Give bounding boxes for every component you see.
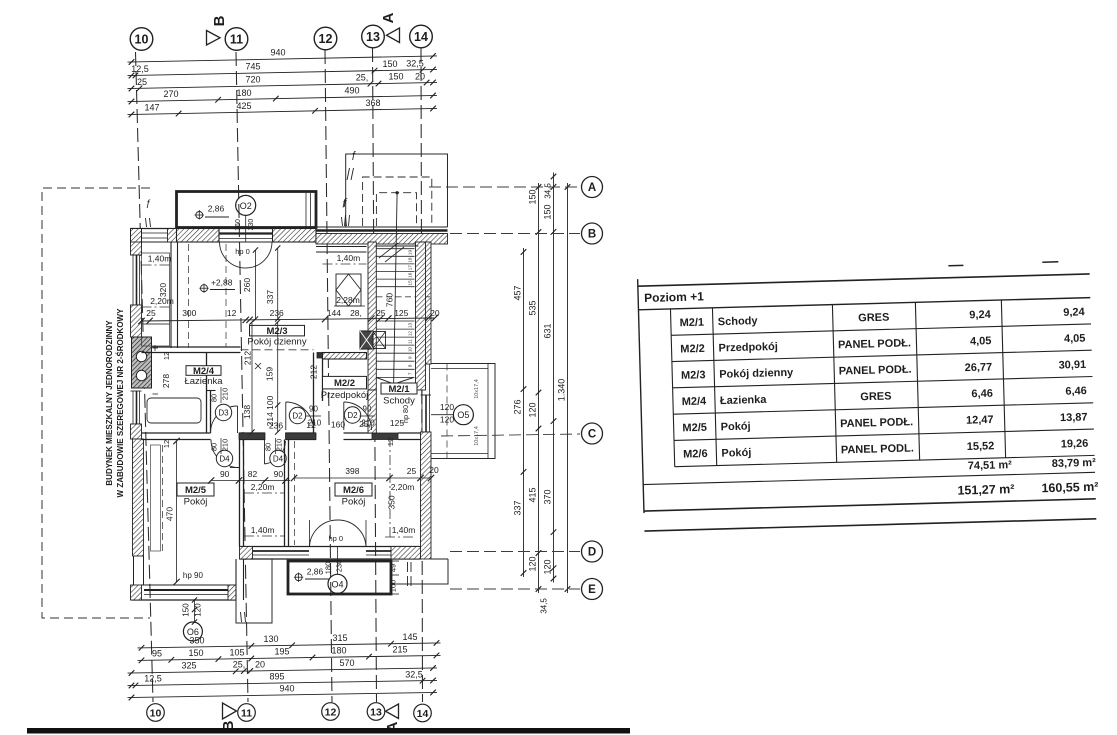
axis bubble E bbox=[582, 579, 603, 600]
wall pier left of window O2 bbox=[177, 229, 220, 243]
svg-text:9,24: 9,24 bbox=[1063, 306, 1086, 319]
svg-text:19,26: 19,26 bbox=[1061, 438, 1089, 451]
svg-text:PANEL PODŁ.: PANEL PODŁ. bbox=[840, 416, 913, 430]
stair break dashed line bbox=[377, 296, 431, 298]
svg-text:180: 180 bbox=[236, 88, 251, 98]
french door bottom arcs hp 0 bbox=[310, 520, 338, 547]
stair treads upper flight bbox=[377, 248, 415, 250]
grid bubble 10 bottom bbox=[147, 704, 165, 722]
svg-text:4,05: 4,05 bbox=[970, 335, 992, 348]
svg-text:120: 120 bbox=[440, 415, 454, 425]
svg-text:212: 212 bbox=[309, 365, 319, 379]
svg-text:M2/2: M2/2 bbox=[334, 378, 355, 389]
svg-text:80: 80 bbox=[210, 394, 219, 402]
svg-text:415: 415 bbox=[528, 487, 538, 502]
porch protrusion below M2/5 bbox=[235, 559, 237, 600]
door D4 right bubble bbox=[270, 450, 286, 466]
svg-text:B: B bbox=[588, 229, 596, 241]
axis bubble B bbox=[582, 223, 603, 244]
svg-text:20: 20 bbox=[430, 308, 440, 318]
svg-text:O6: O6 bbox=[187, 627, 199, 637]
dormer inner dashed rectangle bbox=[376, 193, 416, 226]
svg-text:25,: 25, bbox=[359, 419, 371, 429]
M2/2 top wall bbox=[323, 353, 367, 360]
window bubble O6 bbox=[183, 622, 202, 641]
axis C leader bbox=[441, 434, 580, 436]
svg-text:PANEL PODL.: PANEL PODL. bbox=[841, 442, 914, 456]
svg-text:M2/5: M2/5 bbox=[682, 422, 707, 435]
svg-text:BUDYNEK MIESZKALNY JEDNORODZIN: BUDYNEK MIESZKALNY JEDNORODZINNY bbox=[105, 320, 114, 486]
section marker A bottom bbox=[386, 704, 399, 719]
level mark +2,88 bbox=[201, 285, 208, 292]
svg-text:160: 160 bbox=[331, 420, 345, 430]
svg-text:O5: O5 bbox=[457, 410, 469, 420]
door D2 left bubble bbox=[289, 407, 305, 423]
svg-text:130: 130 bbox=[263, 634, 278, 644]
svg-text:1.340: 1.340 bbox=[557, 379, 567, 402]
room M2/1 Schody bbox=[381, 383, 417, 394]
axis B leader bbox=[433, 233, 580, 235]
height line 1,40m M2/6 bbox=[385, 536, 415, 538]
svg-text:A: A bbox=[588, 182, 596, 194]
grid bubble 12 top bbox=[314, 27, 337, 50]
svg-text:150: 150 bbox=[181, 603, 190, 617]
svg-text:18: 18 bbox=[408, 257, 413, 263]
svg-text:180: 180 bbox=[331, 646, 346, 656]
svg-text:2,86: 2,86 bbox=[307, 567, 324, 577]
svg-text:A: A bbox=[380, 12, 397, 23]
svg-text:398: 398 bbox=[345, 466, 359, 476]
svg-text:7: 7 bbox=[408, 372, 413, 375]
svg-text:150: 150 bbox=[382, 59, 397, 69]
grid bubble 10 top bbox=[130, 28, 153, 51]
grid line 10 bbox=[136, 52, 154, 702]
svg-text:12: 12 bbox=[306, 420, 316, 430]
property boundary dashed bbox=[42, 188, 150, 618]
balcony top slab bbox=[177, 192, 317, 228]
svg-text:GRES: GRES bbox=[860, 390, 892, 403]
svg-text:25: 25 bbox=[407, 466, 417, 476]
scan specks above table bbox=[948, 264, 963, 266]
svg-text:M2/3: M2/3 bbox=[266, 326, 287, 337]
svg-text:25,: 25, bbox=[356, 72, 369, 82]
svg-text:159: 159 bbox=[264, 367, 274, 381]
svg-text:19: 19 bbox=[408, 250, 413, 256]
svg-text:12: 12 bbox=[386, 438, 395, 446]
svg-text:Przedpokój: Przedpokój bbox=[718, 341, 778, 355]
svg-text:D3: D3 bbox=[218, 409, 229, 418]
svg-text:236: 236 bbox=[270, 308, 284, 318]
wall pier right of window O2 bbox=[273, 229, 317, 243]
svg-text:17: 17 bbox=[408, 265, 413, 271]
reference dashed line bbox=[188, 244, 190, 348]
stair landing edge lines bbox=[316, 246, 367, 248]
top parapet left of balcony bbox=[142, 232, 177, 234]
svg-text:10x17,4: 10x17,4 bbox=[474, 379, 480, 399]
balcony bottom slab bbox=[288, 561, 391, 594]
svg-text:320: 320 bbox=[158, 283, 168, 297]
svg-text:Pokój: Pokój bbox=[184, 497, 208, 508]
balcony bearing hatch left bbox=[168, 229, 177, 243]
svg-text:32,5: 32,5 bbox=[406, 58, 424, 68]
table row M2/4 bbox=[673, 403, 1093, 414]
room M2/3 Pokoj dzienny bbox=[250, 325, 305, 336]
svg-text:10: 10 bbox=[135, 33, 149, 47]
svg-text:32,5: 32,5 bbox=[405, 669, 423, 679]
svg-text:90: 90 bbox=[309, 405, 318, 414]
svg-text:180: 180 bbox=[323, 562, 332, 575]
left wall lower stub bbox=[133, 556, 135, 600]
svg-text:570: 570 bbox=[339, 658, 354, 668]
door D4 left bubble bbox=[216, 450, 232, 466]
svg-text:12: 12 bbox=[162, 352, 171, 360]
chimney vent box with cross bbox=[373, 332, 386, 349]
svg-text:M2/3: M2/3 bbox=[681, 369, 706, 382]
svg-text:236: 236 bbox=[269, 421, 283, 431]
left wall window (bathroom) bbox=[132, 391, 134, 424]
height line 2,20m M2/6 bbox=[389, 437, 391, 540]
svg-text:D4: D4 bbox=[219, 455, 230, 464]
svg-text:ƒ: ƒ bbox=[351, 150, 357, 161]
svg-text:10x17,4: 10x17,4 bbox=[474, 426, 480, 446]
svg-text:Schody: Schody bbox=[383, 395, 415, 406]
svg-text:14: 14 bbox=[414, 30, 428, 44]
room M2/4 Lazienka bbox=[186, 366, 221, 376]
svg-text:hp 90: hp 90 bbox=[183, 571, 204, 580]
svg-text:90: 90 bbox=[220, 469, 230, 479]
svg-text:150: 150 bbox=[388, 72, 403, 82]
svg-text:Łazienka: Łazienka bbox=[720, 394, 768, 407]
grid bubble 14 top bbox=[410, 25, 433, 48]
svg-text:M2/1: M2/1 bbox=[388, 384, 410, 395]
svg-text:9,24: 9,24 bbox=[969, 309, 992, 322]
svg-text:1,40m: 1,40m bbox=[148, 254, 172, 264]
svg-text:90: 90 bbox=[274, 469, 284, 479]
svg-text:Łazienka: Łazienka bbox=[184, 376, 223, 387]
svg-text:M2/1: M2/1 bbox=[679, 317, 704, 330]
grid bubble 11 top bbox=[225, 28, 248, 51]
svg-text:6,46: 6,46 bbox=[1065, 385, 1087, 398]
right dim chain 457 276 337 bbox=[523, 248, 525, 577]
grid bubble 14 bottom bbox=[414, 704, 432, 722]
svg-text:W ZABUDOWIE SZEREGOWEJ NR 2-ŚR: W ZABUDOWIE SZEREGOWEJ NR 2-ŚRODKOWY bbox=[116, 308, 125, 498]
svg-text:ƒ: ƒ bbox=[343, 197, 349, 208]
dormer dashed rectangle bbox=[363, 177, 432, 226]
svg-text:12,47: 12,47 bbox=[966, 414, 994, 427]
svg-text:15,52: 15,52 bbox=[967, 440, 995, 453]
svg-text:B: B bbox=[211, 15, 228, 26]
scan artifact black bar bbox=[27, 728, 630, 734]
ceiling break dashed line M2/3 bbox=[241, 349, 314, 351]
svg-text:215: 215 bbox=[392, 645, 407, 655]
stair arrow bbox=[377, 378, 414, 385]
M2/2 corner joint bbox=[317, 353, 323, 359]
height line 2,20m corridor bbox=[244, 492, 285, 494]
level mark 2,86 bottom bbox=[295, 574, 302, 581]
svg-text:278: 278 bbox=[161, 374, 171, 388]
kitchen counter bbox=[142, 253, 170, 324]
door D4 right arc bbox=[265, 441, 286, 464]
svg-text:490: 490 bbox=[344, 86, 359, 96]
svg-text:9: 9 bbox=[408, 356, 413, 359]
svg-text:151,27 m²: 151,27 m² bbox=[957, 482, 1014, 498]
svg-text:49: 49 bbox=[389, 564, 398, 572]
svg-text:34,5: 34,5 bbox=[544, 183, 553, 199]
svg-text:100: 100 bbox=[389, 580, 398, 593]
svg-text:4,05: 4,05 bbox=[1064, 333, 1086, 346]
svg-text:11: 11 bbox=[408, 339, 413, 344]
svg-text:425: 425 bbox=[236, 101, 251, 111]
svg-text:Przedpokój: Przedpokój bbox=[321, 390, 369, 401]
svg-text:28,: 28, bbox=[350, 308, 362, 318]
svg-text:PANEL PODŁ.: PANEL PODŁ. bbox=[838, 337, 911, 351]
svg-text:83,79 m²: 83,79 m² bbox=[1052, 457, 1097, 470]
svg-text:120: 120 bbox=[528, 556, 538, 571]
balcony inner verticals bbox=[305, 193, 307, 227]
svg-text:Pokój: Pokój bbox=[342, 497, 366, 508]
stair left wall bbox=[368, 242, 376, 390]
svg-text:2,86: 2,86 bbox=[208, 204, 225, 214]
svg-text:160: 160 bbox=[235, 219, 242, 231]
svg-text:1,40m: 1,40m bbox=[337, 253, 361, 263]
left exterior wall bbox=[131, 242, 142, 255]
section marker B top bbox=[207, 31, 221, 46]
wall M2/6 left bbox=[284, 440, 286, 547]
interior dim chain 25 300 12 236 144 28 25 125 20 bbox=[142, 318, 435, 321]
window O2 opening bbox=[219, 232, 273, 234]
svg-text:Poziom +1: Poziom +1 bbox=[644, 289, 704, 305]
svg-text:120: 120 bbox=[440, 402, 454, 412]
svg-text:11: 11 bbox=[241, 707, 252, 719]
furniture mark M2/3 bbox=[255, 363, 261, 369]
door D2 right bubble bbox=[344, 407, 360, 423]
section marker A top bbox=[387, 28, 400, 43]
svg-text:PANEL PODŁ.: PANEL PODŁ. bbox=[839, 364, 912, 378]
svg-text:105: 105 bbox=[229, 647, 244, 657]
svg-text:12,5: 12,5 bbox=[131, 64, 149, 74]
svg-text:631: 631 bbox=[543, 323, 553, 338]
svg-text:14: 14 bbox=[417, 708, 429, 720]
svg-text:535: 535 bbox=[528, 300, 538, 315]
top dimensions 25 720 25 150 20 bbox=[128, 82, 438, 88]
right dim chain 150 535 120 415 120 bbox=[538, 183, 540, 593]
left wall pier bbox=[131, 305, 142, 337]
wall M2/5 right bbox=[239, 440, 241, 547]
svg-text:M2/5: M2/5 bbox=[185, 485, 207, 496]
svg-text:25: 25 bbox=[376, 308, 386, 318]
svg-text:720: 720 bbox=[245, 75, 260, 85]
svg-text:12: 12 bbox=[162, 440, 171, 448]
M2/6 inner face dashed bbox=[294, 441, 296, 545]
bottom dimensions 325 25 20 570 bbox=[128, 668, 438, 673]
svg-text:E: E bbox=[588, 584, 596, 596]
bathtub bbox=[147, 398, 201, 423]
svg-text:300: 300 bbox=[182, 308, 196, 318]
stair treads lower flight bbox=[377, 320, 415, 322]
svg-text:6,46: 6,46 bbox=[971, 388, 993, 401]
table column lines bbox=[670, 309, 674, 467]
bay window outline bbox=[431, 364, 495, 459]
svg-text:13: 13 bbox=[370, 706, 382, 718]
svg-text:34,5: 34,5 bbox=[540, 598, 549, 614]
bay centre dashed bbox=[446, 364, 448, 460]
svg-text:150: 150 bbox=[188, 648, 203, 658]
svg-text:Pokój: Pokój bbox=[721, 421, 751, 434]
door D3 (bathroom) arc bbox=[211, 406, 238, 433]
right exterior wall upper bbox=[421, 242, 432, 364]
svg-text:120: 120 bbox=[543, 559, 553, 574]
svg-text:150: 150 bbox=[528, 189, 538, 204]
svg-text:hp 0: hp 0 bbox=[235, 247, 250, 256]
top dimensions 270 180 490 bbox=[128, 95, 438, 101]
middle wall axis C with door openings bbox=[142, 432, 211, 434]
svg-text:12: 12 bbox=[408, 331, 413, 337]
right exterior wall lower bbox=[421, 432, 432, 559]
grid bubble 13 top bbox=[362, 25, 385, 48]
top wall band right section bbox=[316, 226, 448, 228]
svg-text:12: 12 bbox=[325, 706, 337, 718]
M2/6 bottom wall bbox=[240, 546, 421, 548]
svg-text:210: 210 bbox=[221, 388, 230, 401]
svg-text:1,40m: 1,40m bbox=[392, 525, 416, 535]
svg-text:370: 370 bbox=[543, 489, 553, 504]
svg-text:150: 150 bbox=[543, 204, 553, 219]
svg-text:Pokój dzienny: Pokój dzienny bbox=[719, 367, 794, 381]
table frame bbox=[638, 274, 1090, 286]
svg-text:350: 350 bbox=[387, 495, 397, 509]
svg-text:+2,88: +2,88 bbox=[211, 277, 233, 287]
svg-text:74,51 m²: 74,51 m² bbox=[968, 459, 1013, 472]
svg-text:125: 125 bbox=[390, 418, 404, 428]
top dimensions 147 425 368 bbox=[128, 108, 438, 114]
svg-text:457: 457 bbox=[513, 285, 523, 300]
top wall band below (inner line) bbox=[177, 241, 317, 243]
svg-text:125: 125 bbox=[394, 308, 408, 318]
table row M2/6 bbox=[675, 455, 1095, 466]
chimney flue dark block bbox=[360, 331, 373, 349]
window bubble O4 bbox=[328, 574, 347, 593]
svg-text:368: 368 bbox=[365, 98, 380, 108]
axis bubble D bbox=[582, 541, 603, 562]
grid line 14 bbox=[421, 48, 423, 702]
svg-text:270: 270 bbox=[163, 89, 178, 99]
svg-text:8: 8 bbox=[408, 364, 413, 367]
height line 2,20m kitchen bbox=[142, 306, 172, 308]
grid bubble 13 bottom bbox=[367, 703, 385, 721]
window right segment bbox=[366, 550, 391, 552]
svg-text:210: 210 bbox=[221, 439, 230, 452]
axis A leader bbox=[429, 186, 580, 188]
svg-text:940: 940 bbox=[270, 48, 285, 58]
svg-text:25: 25 bbox=[146, 308, 156, 318]
room M2/5 Pokoj bbox=[177, 483, 214, 496]
svg-text:Pokój: Pokój bbox=[721, 447, 751, 460]
svg-text:337: 337 bbox=[265, 290, 275, 304]
svg-text:325: 325 bbox=[181, 661, 196, 671]
height line 1,40m M2/2 side bbox=[323, 263, 367, 265]
svg-text:D2: D2 bbox=[347, 411, 358, 420]
svg-text:Schody: Schody bbox=[718, 315, 759, 328]
door D4 left arc bbox=[211, 440, 239, 468]
svg-text:C: C bbox=[588, 429, 596, 441]
svg-text:12: 12 bbox=[227, 308, 237, 318]
svg-text:D2: D2 bbox=[292, 412, 303, 421]
stair right wall extra layer bbox=[416, 242, 426, 390]
section marker B bottom bbox=[223, 703, 237, 719]
svg-text:M2/6: M2/6 bbox=[683, 448, 708, 461]
svg-text:10: 10 bbox=[408, 347, 413, 353]
svg-text:20: 20 bbox=[429, 465, 439, 475]
dormer centre line bbox=[394, 193, 398, 391]
door D2 left arc bbox=[285, 402, 287, 430]
svg-text:230: 230 bbox=[248, 219, 255, 231]
dormer outer rectangle bbox=[346, 154, 448, 227]
table row M2/3 bbox=[673, 376, 1093, 387]
bathroom top wall bbox=[152, 346, 241, 348]
door D3 bubble bbox=[215, 404, 231, 420]
svg-text:10: 10 bbox=[150, 707, 162, 719]
terrace outline right of balcony bbox=[391, 559, 448, 584]
grid bubble 12 bottom bbox=[322, 703, 340, 721]
svg-text:20: 20 bbox=[415, 71, 425, 81]
svg-text:760: 760 bbox=[385, 293, 395, 307]
bottom-left window wall (hp 90) bbox=[132, 599, 237, 601]
window left of balcony door bbox=[253, 550, 310, 552]
svg-text:M2/6: M2/6 bbox=[343, 485, 364, 496]
axis E leader bbox=[450, 588, 580, 590]
stair upper landing line bbox=[375, 245, 419, 247]
bottom dimensions 95 150 105 195 180 215 bbox=[138, 655, 441, 660]
top dimensions 12,5 745 150 32,5 bbox=[128, 69, 438, 75]
svg-text:120: 120 bbox=[528, 402, 538, 417]
left wall pier at axis C bbox=[131, 424, 142, 439]
svg-text:337: 337 bbox=[513, 500, 523, 515]
svg-text:M2/2: M2/2 bbox=[680, 343, 705, 356]
svg-text:147: 147 bbox=[144, 103, 159, 113]
right wall window O5 opening bbox=[421, 364, 423, 432]
svg-text:D4: D4 bbox=[273, 455, 284, 464]
french door top arcs bbox=[220, 242, 246, 268]
svg-text:13: 13 bbox=[366, 30, 380, 44]
svg-text:25: 25 bbox=[137, 77, 147, 87]
grid line 13 bbox=[373, 48, 377, 702]
height line 1,40m corridor bbox=[244, 535, 285, 537]
svg-text:11: 11 bbox=[230, 33, 243, 47]
svg-text:80: 80 bbox=[210, 443, 219, 451]
svg-text:20: 20 bbox=[255, 659, 265, 669]
svg-text:315: 315 bbox=[332, 633, 347, 643]
grid bubble 11 bottom bbox=[238, 704, 256, 722]
axis bubble C bbox=[582, 423, 603, 444]
door D2 right arc bbox=[343, 402, 345, 430]
svg-text:940: 940 bbox=[279, 683, 294, 693]
M2/5 roof height dashed line bbox=[162, 445, 164, 551]
headroom diamond 2,28m bbox=[336, 274, 361, 306]
left wall window (kitchen) bbox=[132, 255, 134, 305]
kitchen wall stub bbox=[170, 242, 172, 348]
headroom marker square bbox=[336, 274, 361, 306]
svg-text:2,20m: 2,20m bbox=[391, 482, 415, 492]
svg-text:195: 195 bbox=[274, 647, 289, 657]
svg-text:895: 895 bbox=[269, 672, 284, 682]
table row M2/1 bbox=[671, 324, 1091, 335]
svg-text:745: 745 bbox=[245, 62, 260, 72]
wall between M2/3 and M2/2 bbox=[313, 353, 315, 434]
svg-text:15: 15 bbox=[408, 280, 413, 286]
svg-text:260: 260 bbox=[242, 278, 252, 292]
svg-text:1,40m: 1,40m bbox=[251, 525, 275, 535]
M2/5 wardrobe niche bbox=[151, 445, 161, 551]
